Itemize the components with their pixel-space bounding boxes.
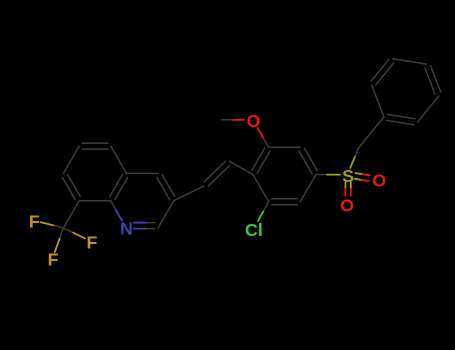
bond C5'=C4' bbox=[299, 148, 317, 173]
svg-text:S: S bbox=[342, 166, 354, 186]
bond C2-C3 bbox=[158, 201, 174, 228]
bond S=O3 bbox=[345, 182, 351, 195]
bond C8a-N1 bbox=[111, 201, 122, 221]
svg-text:N: N bbox=[120, 219, 133, 239]
bond C8-C9 (to CF3) bbox=[64, 201, 80, 228]
bond C1'=C6' (central ring) bbox=[252, 148, 270, 173]
bond CHb-C1' bbox=[230, 162, 254, 175]
bond S=O2 bbox=[355, 173, 370, 181]
bond C2'-C1' bbox=[253, 175, 269, 202]
bond CH2-Cipso bbox=[359, 117, 384, 148]
bond C9-F2 bbox=[64, 228, 86, 238]
bond C4-C4a bbox=[127, 172, 159, 174]
bond S-CH2 bbox=[350, 148, 358, 168]
bond Cm2-Co2 bbox=[418, 96, 439, 122]
svg-text:O: O bbox=[247, 111, 261, 131]
bond CHa=CHb (vinyl double) bbox=[204, 161, 229, 186]
bond C7=C8 bbox=[62, 175, 80, 200]
svg-text:F: F bbox=[48, 250, 59, 270]
svg-text:O: O bbox=[340, 195, 354, 215]
bond C6-C7 bbox=[64, 146, 80, 173]
svg-text:F: F bbox=[86, 232, 97, 252]
bond Co1=Cm1 bbox=[371, 59, 393, 84]
bond C4a=C8a (ring fusion) bbox=[110, 175, 128, 200]
bond N1=C2 (quinoline) bbox=[134, 223, 155, 229]
bond Cp=Cm2 bbox=[425, 66, 441, 94]
bond C5=C6 bbox=[82, 143, 108, 149]
bond O1-CH3 bbox=[221, 119, 244, 121]
bond C9-F3 bbox=[55, 228, 64, 252]
svg-text:O: O bbox=[372, 171, 386, 191]
svg-text:F: F bbox=[29, 211, 40, 231]
bond C3-CHa (vinyl) bbox=[174, 186, 204, 201]
bond C8-C8a bbox=[79, 200, 111, 202]
bond C9-F1 bbox=[41, 222, 64, 228]
bond Cipso-Co1 bbox=[372, 85, 384, 117]
bond C6'-C5' bbox=[269, 146, 301, 148]
bond C4a-C5 bbox=[111, 146, 127, 173]
bond C3=C4 bbox=[157, 175, 175, 200]
bond C4'-C3' bbox=[300, 175, 316, 202]
bond C3'=C2' bbox=[272, 199, 298, 205]
bond C2'-Cl bbox=[258, 202, 269, 221]
svg-text:Cl: Cl bbox=[245, 220, 263, 240]
bond Cm1-Cp bbox=[393, 59, 427, 64]
bond C6'-O1 (methoxy) bbox=[257, 128, 268, 148]
bond C4'-S bbox=[316, 174, 340, 176]
bond Co2=Cipso bbox=[386, 114, 415, 124]
